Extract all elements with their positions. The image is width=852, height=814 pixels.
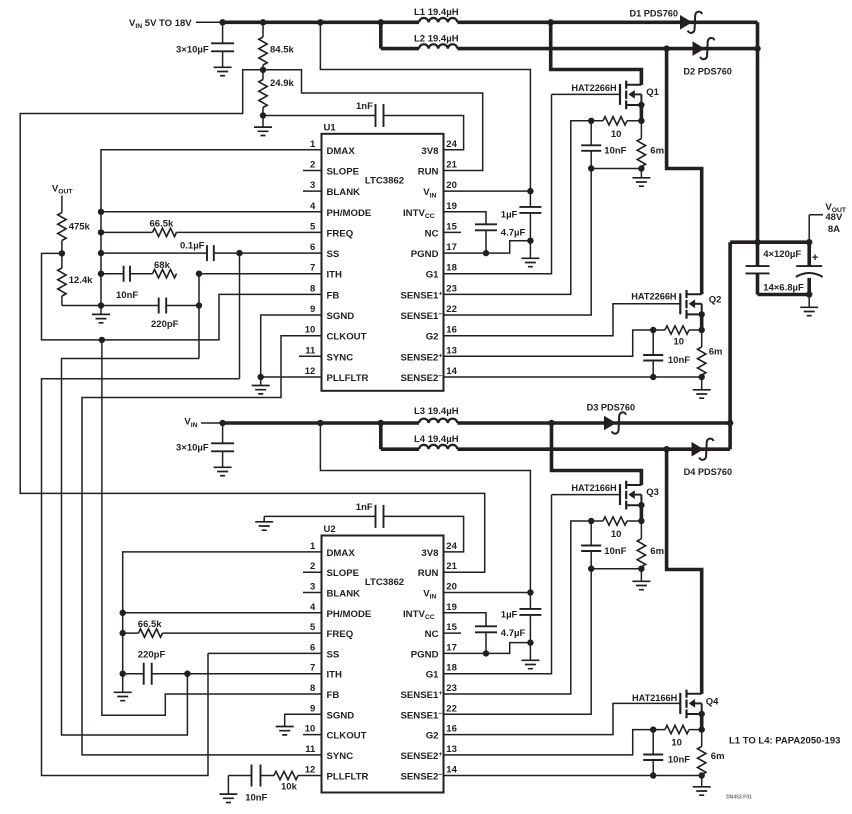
svg-text:FB: FB <box>327 690 340 701</box>
svg-text:G2: G2 <box>426 731 439 742</box>
svg-text:3×10µF: 3×10µF <box>176 443 209 454</box>
svg-text:CLKOUT: CLKOUT <box>327 332 367 343</box>
svg-text:LTC3862: LTC3862 <box>365 577 404 588</box>
svg-text:18: 18 <box>446 263 457 274</box>
svg-text:10nF: 10nF <box>604 146 626 157</box>
svg-text:8: 8 <box>310 683 315 694</box>
svg-text:SENSE1+: SENSE1+ <box>401 690 443 701</box>
svg-text:10nF: 10nF <box>668 755 690 766</box>
svg-text:G1: G1 <box>426 270 439 281</box>
svg-text:DMAX: DMAX <box>327 548 356 559</box>
svg-text:SGND: SGND <box>327 311 355 322</box>
svg-text:4.7µF: 4.7µF <box>501 628 526 639</box>
svg-text:16: 16 <box>446 325 457 336</box>
svg-text:475k: 475k <box>69 222 91 233</box>
svg-text:3×10µF: 3×10µF <box>176 45 209 56</box>
svg-text:17: 17 <box>446 242 457 253</box>
svg-text:15: 15 <box>446 622 457 633</box>
svg-text:SS: SS <box>327 249 340 260</box>
svg-text:L1 19.4µH: L1 19.4µH <box>414 7 459 18</box>
svg-text:23: 23 <box>446 283 457 294</box>
svg-text:12: 12 <box>305 366 316 377</box>
svg-text:G1: G1 <box>426 670 439 681</box>
svg-text:HAT2166H: HAT2166H <box>632 693 678 703</box>
svg-text:10: 10 <box>671 737 682 748</box>
svg-text:SENSE2−: SENSE2− <box>401 772 443 783</box>
svg-text:SENSE1−: SENSE1− <box>401 311 443 322</box>
svg-text:PH/MODE: PH/MODE <box>327 208 372 219</box>
svg-text:7: 7 <box>310 663 315 674</box>
svg-text:PGND: PGND <box>411 649 439 660</box>
svg-text:14×6.8µF: 14×6.8µF <box>763 283 804 294</box>
svg-text:11: 11 <box>305 345 316 356</box>
svg-text:14: 14 <box>446 366 457 377</box>
svg-text:6: 6 <box>310 642 315 653</box>
svg-text:19: 19 <box>446 602 457 613</box>
svg-text:HAT2166H: HAT2166H <box>571 483 617 493</box>
svg-text:NC: NC <box>425 228 439 239</box>
svg-text:4.7µF: 4.7µF <box>501 228 526 239</box>
svg-text:12.4k: 12.4k <box>69 275 93 286</box>
svg-text:16: 16 <box>446 724 457 735</box>
svg-text:DN453 F01: DN453 F01 <box>726 795 752 801</box>
svg-text:12: 12 <box>305 765 316 776</box>
svg-text:Q4: Q4 <box>706 696 719 707</box>
svg-text:SS: SS <box>327 649 340 660</box>
svg-text:6m: 6m <box>650 546 664 557</box>
svg-text:21: 21 <box>446 561 457 572</box>
svg-text:3V8: 3V8 <box>421 146 439 157</box>
svg-text:48V: 48V <box>825 212 843 223</box>
svg-text:L2 19.4µH: L2 19.4µH <box>414 33 459 44</box>
svg-text:1nF: 1nF <box>356 502 373 513</box>
svg-text:7: 7 <box>310 263 315 274</box>
svg-text:24: 24 <box>446 139 457 150</box>
svg-text:4: 4 <box>310 201 316 212</box>
svg-text:3: 3 <box>310 180 315 191</box>
svg-text:23: 23 <box>446 683 457 694</box>
svg-text:SENSE1−: SENSE1− <box>401 710 443 721</box>
svg-text:84.5k: 84.5k <box>270 45 294 56</box>
svg-text:1µF: 1µF <box>501 609 518 620</box>
svg-text:FREQ: FREQ <box>327 629 354 640</box>
svg-text:2: 2 <box>310 160 315 171</box>
svg-text:8A: 8A <box>828 224 840 235</box>
svg-text:+: + <box>812 252 818 264</box>
svg-text:PLLFLTR: PLLFLTR <box>327 373 369 384</box>
svg-text:10: 10 <box>611 529 622 540</box>
svg-text:NC: NC <box>425 629 439 640</box>
svg-text:22: 22 <box>446 304 457 315</box>
svg-text:FB: FB <box>327 290 340 301</box>
svg-text:20: 20 <box>446 582 457 593</box>
svg-text:10: 10 <box>305 724 316 735</box>
svg-text:13: 13 <box>446 345 457 356</box>
svg-text:10nF: 10nF <box>245 792 267 803</box>
svg-text:6m: 6m <box>711 751 725 762</box>
svg-text:SLOPE: SLOPE <box>327 167 360 178</box>
svg-text:18: 18 <box>446 663 457 674</box>
svg-text:4×120µF: 4×120µF <box>763 249 801 260</box>
svg-text:20: 20 <box>446 180 457 191</box>
svg-text:9: 9 <box>310 304 315 315</box>
svg-text:0.1µF: 0.1µF <box>180 241 205 252</box>
svg-text:D2 PDS760: D2 PDS760 <box>683 67 732 77</box>
svg-text:SYNC: SYNC <box>327 751 354 762</box>
svg-text:14: 14 <box>446 765 457 776</box>
svg-text:11: 11 <box>305 744 316 755</box>
svg-text:220pF: 220pF <box>138 649 166 660</box>
svg-text:24: 24 <box>446 541 457 552</box>
svg-text:L1 TO L4: PAPA2050-193: L1 TO L4: PAPA2050-193 <box>729 736 840 747</box>
svg-text:HAT2266H: HAT2266H <box>631 292 677 302</box>
svg-text:5: 5 <box>310 221 316 232</box>
svg-text:Q3: Q3 <box>646 487 659 498</box>
svg-text:BLANK: BLANK <box>327 589 361 600</box>
svg-text:DMAX: DMAX <box>327 146 356 157</box>
svg-text:1: 1 <box>310 541 316 552</box>
svg-text:PGND: PGND <box>411 249 439 260</box>
svg-text:19: 19 <box>446 201 457 212</box>
svg-text:ITH: ITH <box>327 270 343 281</box>
svg-text:10nF: 10nF <box>668 355 690 366</box>
svg-text:SYNC: SYNC <box>327 352 354 363</box>
svg-text:22: 22 <box>446 703 457 714</box>
svg-text:21: 21 <box>446 160 457 171</box>
svg-text:PH/MODE: PH/MODE <box>327 609 372 620</box>
svg-text:D3 PDS760: D3 PDS760 <box>587 402 636 412</box>
svg-text:3: 3 <box>310 582 315 593</box>
svg-text:13: 13 <box>446 744 457 755</box>
svg-text:66.5k: 66.5k <box>138 619 162 630</box>
svg-text:LTC3862: LTC3862 <box>365 176 404 187</box>
svg-text:FREQ: FREQ <box>327 228 354 239</box>
svg-text:220pF: 220pF <box>151 319 179 330</box>
svg-text:24.9k: 24.9k <box>270 78 294 89</box>
svg-text:L3 19.4µH: L3 19.4µH <box>414 406 459 417</box>
svg-text:1: 1 <box>310 139 316 150</box>
svg-text:RUN: RUN <box>418 167 439 178</box>
svg-text:ITH: ITH <box>327 670 343 681</box>
svg-text:SENSE1+: SENSE1+ <box>401 290 443 301</box>
svg-text:6: 6 <box>310 242 315 253</box>
svg-text:U1: U1 <box>324 123 337 134</box>
svg-text:9: 9 <box>310 703 315 714</box>
svg-text:SLOPE: SLOPE <box>327 568 360 579</box>
svg-text:15: 15 <box>446 221 457 232</box>
svg-text:1nF: 1nF <box>356 101 373 112</box>
svg-text:6m: 6m <box>650 146 664 157</box>
svg-text:SENSE2+: SENSE2+ <box>401 352 443 363</box>
svg-text:3V8: 3V8 <box>421 548 439 559</box>
svg-text:CLKOUT: CLKOUT <box>327 731 367 742</box>
svg-text:6m: 6m <box>709 347 723 358</box>
svg-text:8: 8 <box>310 283 315 294</box>
svg-text:5: 5 <box>310 622 316 633</box>
svg-text:RUN: RUN <box>418 568 439 579</box>
svg-text:D4 PDS760: D4 PDS760 <box>684 467 733 477</box>
svg-text:17: 17 <box>446 642 457 653</box>
svg-text:2: 2 <box>310 561 315 572</box>
svg-text:10k: 10k <box>281 781 298 792</box>
svg-text:BLANK: BLANK <box>327 187 361 198</box>
svg-text:10nF: 10nF <box>604 546 626 557</box>
svg-text:Q2: Q2 <box>709 295 722 306</box>
svg-text:SENSE2−: SENSE2− <box>401 373 443 384</box>
svg-text:10nF: 10nF <box>116 290 138 301</box>
svg-text:Q1: Q1 <box>646 87 659 98</box>
svg-text:68k: 68k <box>154 260 171 271</box>
svg-text:66.5k: 66.5k <box>150 219 174 230</box>
svg-text:U2: U2 <box>324 524 336 535</box>
svg-text:HAT2266H: HAT2266H <box>571 83 617 93</box>
svg-text:PLLFLTR: PLLFLTR <box>327 772 369 783</box>
svg-text:10: 10 <box>305 325 316 336</box>
svg-text:SENSE2+: SENSE2+ <box>401 751 443 762</box>
svg-text:4: 4 <box>310 602 316 613</box>
svg-text:G2: G2 <box>426 332 439 343</box>
svg-text:1µF: 1µF <box>501 210 518 221</box>
svg-text:10: 10 <box>611 129 622 140</box>
svg-text:10: 10 <box>674 337 685 348</box>
svg-text:L4 19.4µH: L4 19.4µH <box>414 434 459 445</box>
svg-text:SGND: SGND <box>327 710 355 721</box>
svg-text:D1 PDS760: D1 PDS760 <box>630 9 679 19</box>
